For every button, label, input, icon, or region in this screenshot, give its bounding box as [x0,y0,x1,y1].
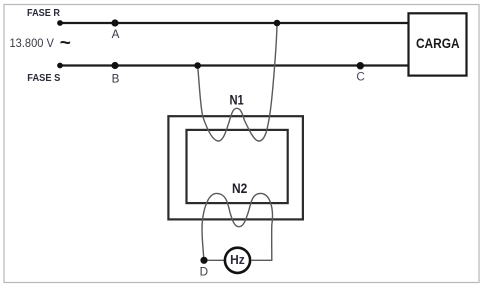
svg-text:B: B [112,72,120,85]
svg-text:C: C [356,70,364,83]
svg-text:FASE R: FASE R [27,8,61,19]
svg-text:D: D [200,265,208,278]
svg-text:CARGA: CARGA [416,36,460,51]
svg-text:Hz: Hz [230,252,245,267]
svg-text:N1: N1 [229,92,243,108]
svg-text:A: A [112,28,120,41]
svg-text:~: ~ [60,33,71,54]
svg-text:N2: N2 [232,180,247,196]
svg-text:FASE S: FASE S [27,73,60,84]
svg-text:13.800 V: 13.800 V [10,37,55,50]
